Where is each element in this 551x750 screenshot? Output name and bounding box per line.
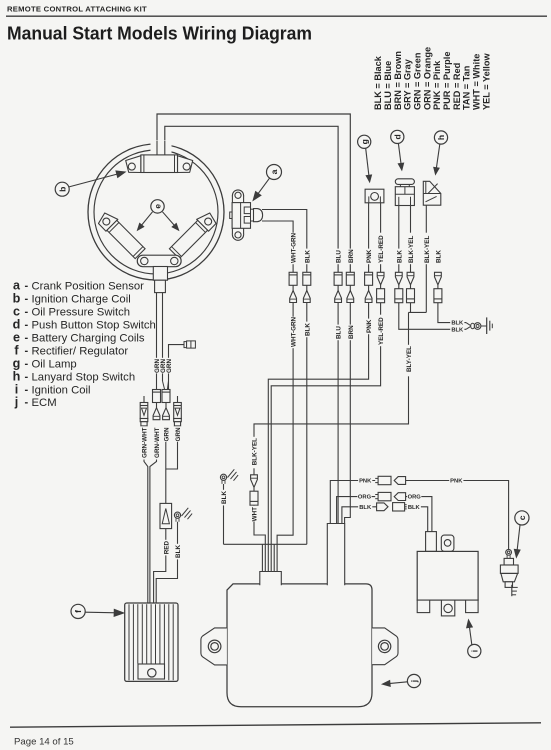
callout h with arrow [436, 144, 440, 170]
svg-text:BRN: BRN [348, 325, 355, 339]
svg-text:GRN: GRN [163, 427, 170, 441]
svg-text:GRN: GRN [166, 359, 173, 373]
lanyard stop switch h [423, 181, 441, 205]
svg-text:PNK: PNK [366, 249, 373, 263]
svg-text:BLK-YEL: BLK-YEL [252, 438, 259, 465]
label BLK at mid ring [220, 490, 227, 506]
callout d with arrow [398, 144, 401, 166]
ECM right mounting tab [372, 628, 398, 665]
wire PNK to oil pressure switch [405, 481, 508, 550]
wire PNK connector row left tail [330, 481, 375, 524]
svg-text:GRN-WHT: GRN-WHT [142, 427, 149, 458]
svg-text:-: - [25, 280, 29, 292]
wire BLK to ignition coil [405, 507, 428, 532]
svg-text:e: e [153, 204, 163, 209]
svg-text:Rectifier/ Regulator: Rectifier/ Regulator [32, 345, 129, 357]
label YEL-RED lower [377, 315, 384, 347]
svg-text:-: - [25, 371, 29, 383]
svg-text:-: - [25, 332, 29, 344]
svg-text:b: b [13, 292, 21, 306]
ECM left harness sleeve [260, 572, 282, 586]
label YEL-RED upper [377, 233, 384, 265]
wire RED fuse to rectifier [154, 529, 166, 603]
bottom coil bar with mounting bolts [137, 255, 181, 267]
svg-text:b: b [57, 187, 67, 192]
wire GRN-WHT pair converging to rectifier [144, 460, 157, 604]
wire PNK from oil lamp [368, 197, 370, 273]
svg-text:Push Button Stop Switch: Push Button Stop Switch [32, 320, 156, 332]
svg-text:Battery Charging Coils: Battery Charging Coils [32, 332, 145, 344]
wire BLU from ignition charge coil (up over top, down right side) [165, 126, 338, 272]
label PNK lower [365, 319, 372, 335]
ECM right harness sleeve [327, 524, 344, 586]
svg-text:h: h [13, 369, 21, 383]
connector GRN harness outer-right [174, 403, 182, 419]
labels BLK at right ground [450, 319, 464, 327]
push button stop switch d [395, 179, 414, 206]
svg-text:-: - [25, 306, 29, 318]
label BRN lower [347, 325, 354, 341]
wire WHT-GRN from crank position sensor [262, 221, 293, 272]
wire BLK bus drop into ECM left sleeve [261, 544, 263, 572]
label PNK upper [365, 249, 372, 265]
wire BLK-YEL from lanyard switch to junction [425, 200, 427, 312]
svg-text:REMOTE CONTROL ATTACHING KIT: REMOTE CONTROL ATTACHING KIT [7, 4, 147, 13]
labels PNK row [358, 477, 372, 485]
header rule [6, 15, 547, 17]
svg-text:PNK = Pink: PNK = Pink [432, 60, 442, 110]
svg-text:e: e [13, 330, 20, 344]
ignition coil i [417, 532, 478, 616]
svg-text:j: j [14, 395, 19, 409]
label BLK-YEL upper (push button) [407, 233, 414, 265]
svg-text:Lanyard Stop Switch: Lanyard Stop Switch [32, 371, 136, 383]
labels BLK row [358, 503, 372, 511]
svg-text:Page 14 of 15: Page 14 of 15 [14, 737, 74, 748]
inline connector BLK [377, 503, 408, 511]
svg-text:RED: RED [163, 541, 170, 555]
svg-text:ORN = Orange: ORN = Orange [422, 47, 432, 110]
wire WHT-GRN lower run into ECM left sleeve [277, 303, 293, 573]
svg-text:g: g [13, 356, 21, 370]
wire GRN from auxiliary plug [169, 345, 185, 390]
ring terminal BLK at rectifier [174, 512, 180, 518]
svg-text:-: - [25, 358, 29, 370]
ground symbol at rectifier [182, 508, 189, 516]
label BLK-YEL at junction drop [251, 437, 258, 469]
wire BLK ground bus horizontal [224, 543, 307, 545]
ground symbol oil pressure switch [511, 585, 513, 596]
connector pair BLK (crank sensor) [303, 272, 311, 285]
svg-text:BLU: BLU [336, 326, 343, 339]
junction BLK-YEL merge [254, 312, 426, 474]
connector pair WHT-GRN [289, 272, 297, 285]
svg-text:PUR = Purple: PUR = Purple [442, 52, 452, 110]
svg-text:BRN: BRN [348, 249, 355, 263]
inline connector PNK [375, 476, 405, 484]
svg-text:BLK: BLK [304, 323, 311, 336]
svg-text:GRY = Gray: GRY = Gray [403, 58, 413, 110]
svg-text:a: a [13, 279, 21, 293]
svg-text:WHT = White: WHT = White [472, 54, 482, 110]
svg-text:a: a [269, 169, 279, 174]
oil pressure switch c [500, 549, 518, 596]
label BLU lower [335, 325, 342, 341]
svg-text:YEL = Yellow: YEL = Yellow [481, 53, 491, 110]
ring terminal at right ground [466, 323, 470, 330]
svg-text:Oil Pressure Switch: Oil Pressure Switch [32, 307, 131, 319]
wire BLK-YEL from push button stop switch [410, 197, 412, 272]
wire GRN pair from battery charging coils [156, 293, 158, 382]
svg-text:-: - [25, 397, 29, 409]
component key list a-j [13, 279, 156, 410]
svg-text:YEL-RED: YEL-RED [378, 317, 385, 345]
svg-text:c: c [517, 515, 527, 520]
svg-text:d: d [392, 134, 402, 139]
connector pair BRN [346, 272, 354, 285]
connector pair BLU [334, 272, 342, 285]
svg-text:ORG: ORG [358, 495, 372, 501]
callout f with arrow [85, 611, 117, 614]
wire GRN-WHT stubs above harness connectors [143, 396, 145, 403]
svg-text:BLK: BLK [451, 328, 464, 334]
svg-text:BLK: BLK [221, 491, 228, 504]
svg-text:i: i [15, 382, 19, 396]
svg-text:i: i [469, 650, 479, 652]
svg-text:Crank Position Sensor: Crank Position Sensor [32, 281, 145, 293]
label BRN upper [347, 249, 354, 265]
label BLK-YEL upper (lanyard) [423, 233, 430, 265]
wire YEL-RED lower run into ECM left sleeve [271, 303, 380, 573]
label BLK lower (crank) [303, 322, 310, 338]
inline connector ORG [375, 492, 405, 500]
svg-text:BLU: BLU [336, 250, 343, 263]
svg-text:g: g [359, 139, 369, 144]
svg-text:BLK: BLK [396, 250, 403, 263]
svg-text:f: f [73, 610, 83, 613]
fuse RED (rectifier feed) [160, 503, 172, 528]
stator outer rim [88, 144, 224, 280]
label WHT below connector [251, 506, 258, 522]
labels ORG row [357, 493, 371, 501]
svg-text:BLK: BLK [304, 250, 311, 263]
label BLY-YEL [405, 345, 412, 377]
wire BRN lower run into ECM right sleeve [345, 303, 351, 524]
svg-text:WHT-GRN: WHT-GRN [291, 316, 298, 347]
callout e with arrows [140, 212, 152, 227]
stator inner rim [94, 150, 218, 274]
svg-text:BLK-YEL: BLK-YEL [408, 236, 415, 263]
wire BLK from crank position sensor [262, 210, 307, 273]
svg-text:WHT: WHT [252, 507, 259, 521]
battery charging coil left (e) [96, 210, 146, 260]
labels GRN at stator tail [153, 358, 160, 374]
svg-text:Oil Lamp: Oil Lamp [32, 358, 77, 370]
wire BLK from push button stop switch [398, 197, 400, 272]
svg-text:ORG: ORG [408, 495, 422, 501]
wire GRN pair merge to fuse [166, 441, 178, 503]
svg-text:Ignition Coil: Ignition Coil [32, 384, 91, 396]
wire YEL-RED from oil lamp [380, 197, 382, 273]
label BLK upper (push button) [395, 249, 402, 265]
svg-text:-: - [25, 293, 29, 305]
svg-text:GRN: GRN [175, 427, 182, 441]
svg-text:BRN = Brown: BRN = Brown [393, 51, 403, 110]
crank position sensor a [230, 190, 263, 240]
svg-text:TAN = Tan: TAN = Tan [462, 65, 472, 110]
svg-text:BLK: BLK [435, 250, 442, 263]
wire BLK (lanyard) to ground ring [438, 303, 466, 323]
battery charging coil right (e) [168, 210, 218, 260]
labels GRN-WHT / GRN harness [141, 426, 148, 458]
callout i with arrow [469, 625, 472, 645]
footer rule [10, 723, 541, 727]
auxiliary 2-pin plug at stator [184, 342, 187, 348]
wire ORG to ignition coil [405, 497, 432, 532]
svg-text:c: c [13, 305, 20, 319]
ignition charge coil (b) top of stator [126, 155, 193, 173]
label BLK at rectifier ring [174, 544, 181, 560]
rim gap where charge-coil wires pass [151, 140, 172, 155]
wire BLU lower run into ECM right sleeve [337, 303, 339, 524]
callout b with arrow [69, 173, 119, 186]
wire BLK (push button) to ground ring [399, 303, 466, 330]
label BLU upper [335, 249, 342, 265]
svg-text:BLK: BLK [359, 505, 372, 511]
svg-text:BLU = Blue: BLU = Blue [383, 61, 393, 110]
svg-text:BLK: BLK [175, 545, 182, 558]
svg-text:GRN-WHT: GRN-WHT [154, 427, 161, 458]
callout g with arrow [366, 149, 369, 178]
ring terminal BLK mid [220, 474, 226, 480]
connector pair BLK-YEL to WHT [251, 475, 258, 488]
connector pair BLK (push button) [395, 272, 402, 285]
svg-text:RED = Red: RED = Red [452, 63, 462, 110]
label BLK upper (lanyard) [435, 249, 442, 265]
svg-text:GRN = Green: GRN = Green [413, 52, 423, 110]
wire ORG connector row left tail [337, 497, 376, 524]
svg-text:-: - [25, 319, 29, 331]
svg-text:j: j [409, 680, 419, 683]
callout a with arrow [257, 178, 270, 195]
svg-text:ECM: ECM [32, 397, 57, 409]
wire BRN from ignition charge coil [157, 114, 350, 272]
ground symbol mid [228, 469, 235, 477]
svg-text:Ignition Charge Coil: Ignition Charge Coil [32, 294, 131, 306]
wire BLK lower run joining ground-bus into ECM left sleeve [306, 303, 308, 545]
connector pair BLK-YEL (push button) [407, 272, 414, 285]
svg-text:BLY-YEL: BLY-YEL [406, 346, 413, 372]
ECM j [227, 584, 372, 707]
ground symbol right [486, 317, 488, 334]
connector pair BLK (lanyard) [435, 272, 442, 285]
svg-text:d: d [13, 318, 21, 332]
svg-text:PNK: PNK [450, 479, 463, 485]
rectifier/regulator f [125, 603, 178, 681]
wire BLK from mid ring terminal to ground bus [223, 484, 225, 544]
connector GRN-WHT harness outer-left [140, 403, 148, 419]
oil lamp g [365, 189, 384, 203]
label WHT-GRN lower [290, 317, 297, 349]
svg-text:WHT-GRN: WHT-GRN [291, 232, 298, 263]
ECM left mounting tab [201, 628, 227, 665]
connector GRN inner pair [153, 390, 161, 403]
svg-text:-: - [25, 345, 29, 357]
callout c with arrow [517, 525, 520, 552]
svg-text:BLK: BLK [408, 505, 421, 511]
label WHT-GRN upper [290, 233, 297, 265]
svg-text:-: - [25, 384, 29, 396]
svg-text:PNK: PNK [366, 319, 373, 333]
wire BLK ring terminal to rectifier [156, 522, 177, 603]
connector pair YEL-RED [377, 272, 384, 285]
svg-text:YEL-RED: YEL-RED [378, 235, 385, 263]
svg-text:BLK: BLK [451, 320, 464, 326]
svg-text:PNK: PNK [359, 479, 372, 485]
connector pair PNK [365, 272, 373, 285]
wire BLK crank-sensor drop into ECM left sleeve [273, 544, 275, 572]
svg-text:Manual Start Models Wiring Dia: Manual Start Models Wiring Diagram [7, 23, 312, 44]
wire WHT (below BLK-YEL connector) into ECM left sleeve [254, 505, 265, 573]
wire BLK-YEL (push button) to junction [410, 303, 412, 313]
stator pickup stem through rim [153, 267, 167, 281]
callout j with arrow [388, 682, 408, 684]
svg-text:h: h [436, 135, 446, 140]
svg-text:BLK-YEL: BLK-YEL [424, 236, 431, 263]
label BLK upper (crank) [303, 249, 310, 265]
wire PNK lower run into ECM left sleeve [268, 303, 368, 573]
wire colour legend [373, 47, 491, 110]
GRN wires converge into connectors [156, 381, 158, 390]
wire BLK connector row left tail [342, 507, 377, 524]
svg-text:BLK = Black: BLK = Black [373, 55, 383, 110]
label RED at fuse [162, 540, 169, 556]
